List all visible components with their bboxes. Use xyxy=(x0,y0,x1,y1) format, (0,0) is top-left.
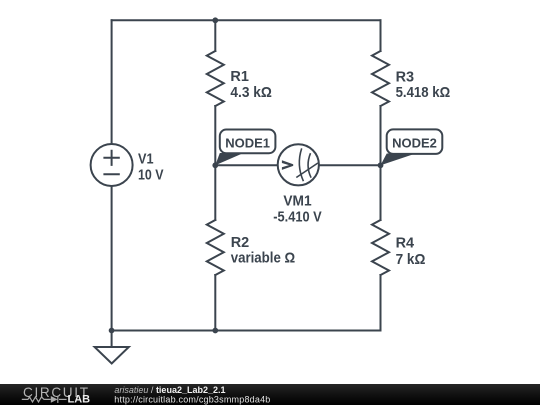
voltmeter VM1 gauge arcs xyxy=(299,148,303,181)
wire: right rail top lead xyxy=(380,20,382,51)
svg-text:5.418 kΩ: 5.418 kΩ xyxy=(396,84,451,101)
resistor R4 xyxy=(372,220,389,275)
node flag NODE1 xyxy=(215,130,275,166)
svg-text:7 kΩ: 7 kΩ xyxy=(396,251,426,268)
ground symbol xyxy=(95,331,129,364)
svg-text:4.3 kΩ: 4.3 kΩ xyxy=(230,84,272,101)
resistor R2 xyxy=(207,220,224,275)
svg-text:10 V: 10 V xyxy=(138,166,164,183)
svg-text:V1: V1 xyxy=(138,151,154,168)
footer logo resistor-diode glyph xyxy=(22,396,67,403)
node flag NODE2 xyxy=(381,129,443,165)
svg-text:http://circuitlab.com/cgb3smmp: http://circuitlab.com/cgb3smmp8da4b xyxy=(114,394,270,404)
resistor R3 xyxy=(372,51,389,106)
junction: top middle node xyxy=(212,17,218,23)
svg-text:NODE1: NODE1 xyxy=(225,136,270,151)
svg-text:R3: R3 xyxy=(396,69,415,86)
junction: bottom middle xyxy=(212,328,218,334)
svg-text:variable Ω: variable Ω xyxy=(231,250,296,267)
wire: top horizontal rail xyxy=(112,19,381,21)
svg-text:VM1: VM1 xyxy=(283,193,311,210)
junction: bottom left (ground) xyxy=(109,328,115,334)
resistor R1 xyxy=(207,51,224,106)
svg-text:-5.410 V: -5.410 V xyxy=(273,208,321,225)
voltmeter VM1 needle xyxy=(296,163,318,178)
junction: NODE1 xyxy=(212,162,218,168)
wire: middle rail top lead xyxy=(214,20,216,51)
svg-text:LAB: LAB xyxy=(68,394,91,405)
voltage source V1 xyxy=(91,144,133,186)
junction: NODE2 xyxy=(378,162,384,168)
wire: middle rail between NODE1 and R2 xyxy=(214,165,216,220)
wire: right rail bottom lead xyxy=(380,275,382,331)
svg-text:NODE2: NODE2 xyxy=(392,136,437,151)
svg-text:R2: R2 xyxy=(231,234,250,251)
svg-text:R4: R4 xyxy=(396,235,415,252)
wire: right rail between NODE2 and R4 xyxy=(380,165,382,220)
wire: voltmeter to NODE2 xyxy=(319,164,381,166)
voltmeter VM1 polarity mark xyxy=(282,160,293,170)
wire: NODE1 to voltmeter xyxy=(215,164,277,166)
voltmeter VM1 body xyxy=(278,144,319,185)
svg-text:R1: R1 xyxy=(230,68,249,85)
wire: middle rail between R1 and NODE1 xyxy=(214,106,216,165)
wire: right rail between R3 and NODE2 xyxy=(380,106,382,165)
wire: middle rail bottom lead xyxy=(214,275,216,331)
wire: left rail lower segment xyxy=(111,186,113,331)
footer bar xyxy=(0,384,540,405)
wire: bottom horizontal rail xyxy=(112,330,381,332)
wire: left rail upper segment xyxy=(111,20,113,144)
